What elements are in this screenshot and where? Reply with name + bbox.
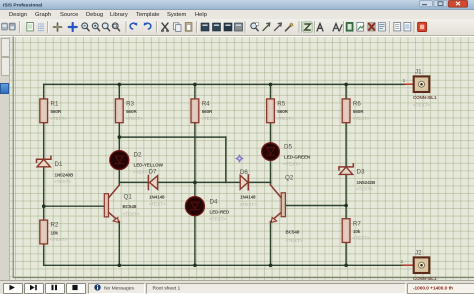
junction bottom rail / Q2e <box>269 264 273 268</box>
svg-text:D4: D4 <box>210 199 218 206</box>
svg-text:<TEXT>: <TEXT> <box>209 217 226 222</box>
svg-text:-1000.0 +1400.0 th: -1000.0 +1400.0 th <box>413 286 453 291</box>
svg-text:10k: 10k <box>353 229 361 234</box>
sheet border <box>13 37 474 278</box>
junction left column / base wire <box>42 204 46 208</box>
svg-text:<TEXT>: <TEXT> <box>284 162 301 167</box>
svg-text:R1: R1 <box>51 101 59 108</box>
svg-text:Help: Help <box>195 12 207 18</box>
svg-text:10k: 10k <box>51 230 59 235</box>
selected mode icon <box>0 83 9 94</box>
svg-text:J1: J1 <box>415 69 422 76</box>
wire bottom rail <box>44 264 403 266</box>
svg-text:<TEXT>: <TEXT> <box>413 102 430 107</box>
svg-text:1: 1 <box>403 78 406 83</box>
svg-text:<TEXT>: <TEXT> <box>277 116 294 121</box>
window buttons min/max/close <box>420 1 468 8</box>
svg-text:LED-GREEN: LED-GREEN <box>284 155 311 160</box>
svg-text:1N5242B: 1N5242B <box>357 180 376 185</box>
svg-text:560R: 560R <box>353 109 364 114</box>
svg-text:BC548: BC548 <box>286 230 300 235</box>
junction mid wire / D4 <box>193 181 197 185</box>
junction top rail / R3 <box>118 83 122 87</box>
wire R1-D1 <box>43 123 45 159</box>
resistor R3 <box>115 99 143 123</box>
junction top rail / R6 <box>344 83 348 87</box>
junction right column / base wire <box>344 204 348 208</box>
svg-text:<TEXT>: <TEXT> <box>126 116 143 121</box>
origin marker (blue diamond) <box>236 155 243 162</box>
svg-text:LED-YELLOW: LED-YELLOW <box>134 163 164 168</box>
LED D5 <box>262 143 311 167</box>
svg-text:System: System <box>167 12 186 18</box>
svg-text:<TEXT>: <TEXT> <box>54 179 71 184</box>
svg-text:Q2: Q2 <box>285 175 294 182</box>
svg-text:560R: 560R <box>51 109 62 114</box>
svg-text:1N5240B: 1N5240B <box>55 173 74 178</box>
zener diode D3 <box>339 164 376 192</box>
wire mid wire right <box>248 181 270 183</box>
wire R4-D4 column <box>194 123 196 266</box>
svg-text:J2: J2 <box>415 250 422 257</box>
wire Q1 base wire <box>44 205 105 207</box>
resistor R7 <box>342 219 370 243</box>
resistor R5 <box>267 99 295 123</box>
svg-text:LED-RED: LED-RED <box>210 210 230 215</box>
wire R6 top stem <box>345 84 347 99</box>
svg-text:<TEXT>: <TEXT> <box>352 236 369 241</box>
svg-text:Library: Library <box>110 12 128 18</box>
svg-text:D6: D6 <box>240 169 248 176</box>
wire cross wire drop <box>225 137 227 182</box>
resistor R1 <box>40 99 68 123</box>
svg-text:CONN-SIL1: CONN-SIL1 <box>413 276 437 281</box>
svg-text:Template: Template <box>136 12 160 18</box>
sim control glyphs <box>10 285 78 290</box>
LED D4 <box>185 197 230 222</box>
svg-text:ISIS Professional: ISIS Professional <box>3 3 42 9</box>
wire R5 top stem <box>270 84 272 99</box>
transistor Q2 (NPN BC548, mirrored) <box>271 175 303 243</box>
svg-text:Q1: Q1 <box>124 194 133 201</box>
svg-text:D3: D3 <box>357 169 365 176</box>
wire top rail <box>44 83 405 85</box>
junction R3-D2 / cross wire <box>118 135 122 139</box>
svg-text:Graph: Graph <box>35 12 51 18</box>
junction bottom rail / Q1e <box>118 264 122 268</box>
wire mid wire center <box>158 181 241 183</box>
svg-text:<TEXT>: <TEXT> <box>149 202 166 207</box>
svg-text:1N4148: 1N4148 <box>240 195 256 200</box>
title bar <box>0 0 474 10</box>
junction bottom rail / R7 <box>344 264 348 268</box>
svg-text:<TEXT>: <TEXT> <box>286 238 303 243</box>
svg-text:<TEXT>: <TEXT> <box>356 187 373 192</box>
LED D2 <box>110 151 164 175</box>
resistor R2 <box>40 220 68 244</box>
wire upper cross wire <box>119 136 226 138</box>
svg-text:560R: 560R <box>277 109 288 114</box>
svg-text:D7: D7 <box>149 169 157 176</box>
wire mid wire left <box>119 181 148 183</box>
junction top rail / R5 <box>269 83 273 87</box>
svg-text:D5: D5 <box>284 144 292 151</box>
svg-text:R4: R4 <box>202 101 210 108</box>
wire R3 top stem <box>118 84 120 99</box>
toolbar icons <box>2 22 427 33</box>
transistor Q1 (NPN BC548) <box>104 182 140 222</box>
wire R5-D5 column <box>270 123 272 183</box>
status panels <box>88 283 145 294</box>
wire R7-bottom <box>345 243 347 266</box>
wire R2-bottom <box>43 244 45 265</box>
svg-text:Root sheet 1: Root sheet 1 <box>153 285 181 291</box>
svg-text:<TEXT>: <TEXT> <box>240 202 257 207</box>
wire Q2 base wire <box>285 205 346 207</box>
junction top rail / R4 <box>193 83 197 87</box>
svg-text:<TEXT>: <TEXT> <box>201 116 218 121</box>
svg-text:CONN-SIL1: CONN-SIL1 <box>413 95 437 100</box>
svg-text:Debug: Debug <box>86 12 103 18</box>
diode D7 (cathode left) <box>148 169 166 207</box>
left mode toolbar strip <box>0 37 10 280</box>
svg-text:560R: 560R <box>126 109 137 114</box>
svg-text:560R: 560R <box>202 109 213 114</box>
wire Q2 emitter wire <box>270 222 272 266</box>
svg-text:1: 1 <box>401 259 404 264</box>
wire D3-R7 <box>345 174 347 218</box>
svg-text:<TEXT>: <TEXT> <box>50 116 67 121</box>
svg-text:Design: Design <box>9 12 27 18</box>
wire R1 top stem <box>43 84 45 99</box>
svg-text:D1: D1 <box>55 161 63 168</box>
svg-text:<TEXT>: <TEXT> <box>123 211 140 216</box>
connector J1 (CONN-SIL1) <box>403 69 437 108</box>
wire Q1 emitter wire <box>118 222 120 266</box>
svg-text:R3: R3 <box>126 101 134 108</box>
svg-text:R6: R6 <box>353 101 361 108</box>
wire R6-D3 <box>345 123 347 167</box>
svg-text:Source: Source <box>60 12 78 18</box>
svg-text:1N4148: 1N4148 <box>149 194 165 199</box>
junction bottom rail / D4 <box>193 264 197 268</box>
wire R4 top stem <box>194 84 196 99</box>
resistor R6 <box>342 99 370 123</box>
resistor R4 <box>191 99 219 123</box>
wire R3-D2-node column <box>118 123 120 183</box>
diode D6 (cathode right) <box>240 169 257 207</box>
svg-text:R2: R2 <box>51 222 59 229</box>
wire D1-R2 <box>43 167 45 220</box>
svg-text:D2: D2 <box>134 152 142 159</box>
menu bar <box>0 10 474 19</box>
svg-text:R7: R7 <box>353 220 361 227</box>
svg-text:BC548: BC548 <box>123 204 137 209</box>
toolbar <box>0 19 474 36</box>
svg-text:R5: R5 <box>277 101 285 108</box>
svg-text:<TEXT>: <TEXT> <box>50 237 67 242</box>
zener diode D1 <box>37 156 74 184</box>
connector J2 (CONN-SIL1) <box>401 250 437 281</box>
bottom status bar <box>0 280 474 293</box>
svg-text:<TEXT>: <TEXT> <box>352 116 369 121</box>
message icon <box>94 284 100 290</box>
svg-text:No Messages: No Messages <box>104 285 134 291</box>
